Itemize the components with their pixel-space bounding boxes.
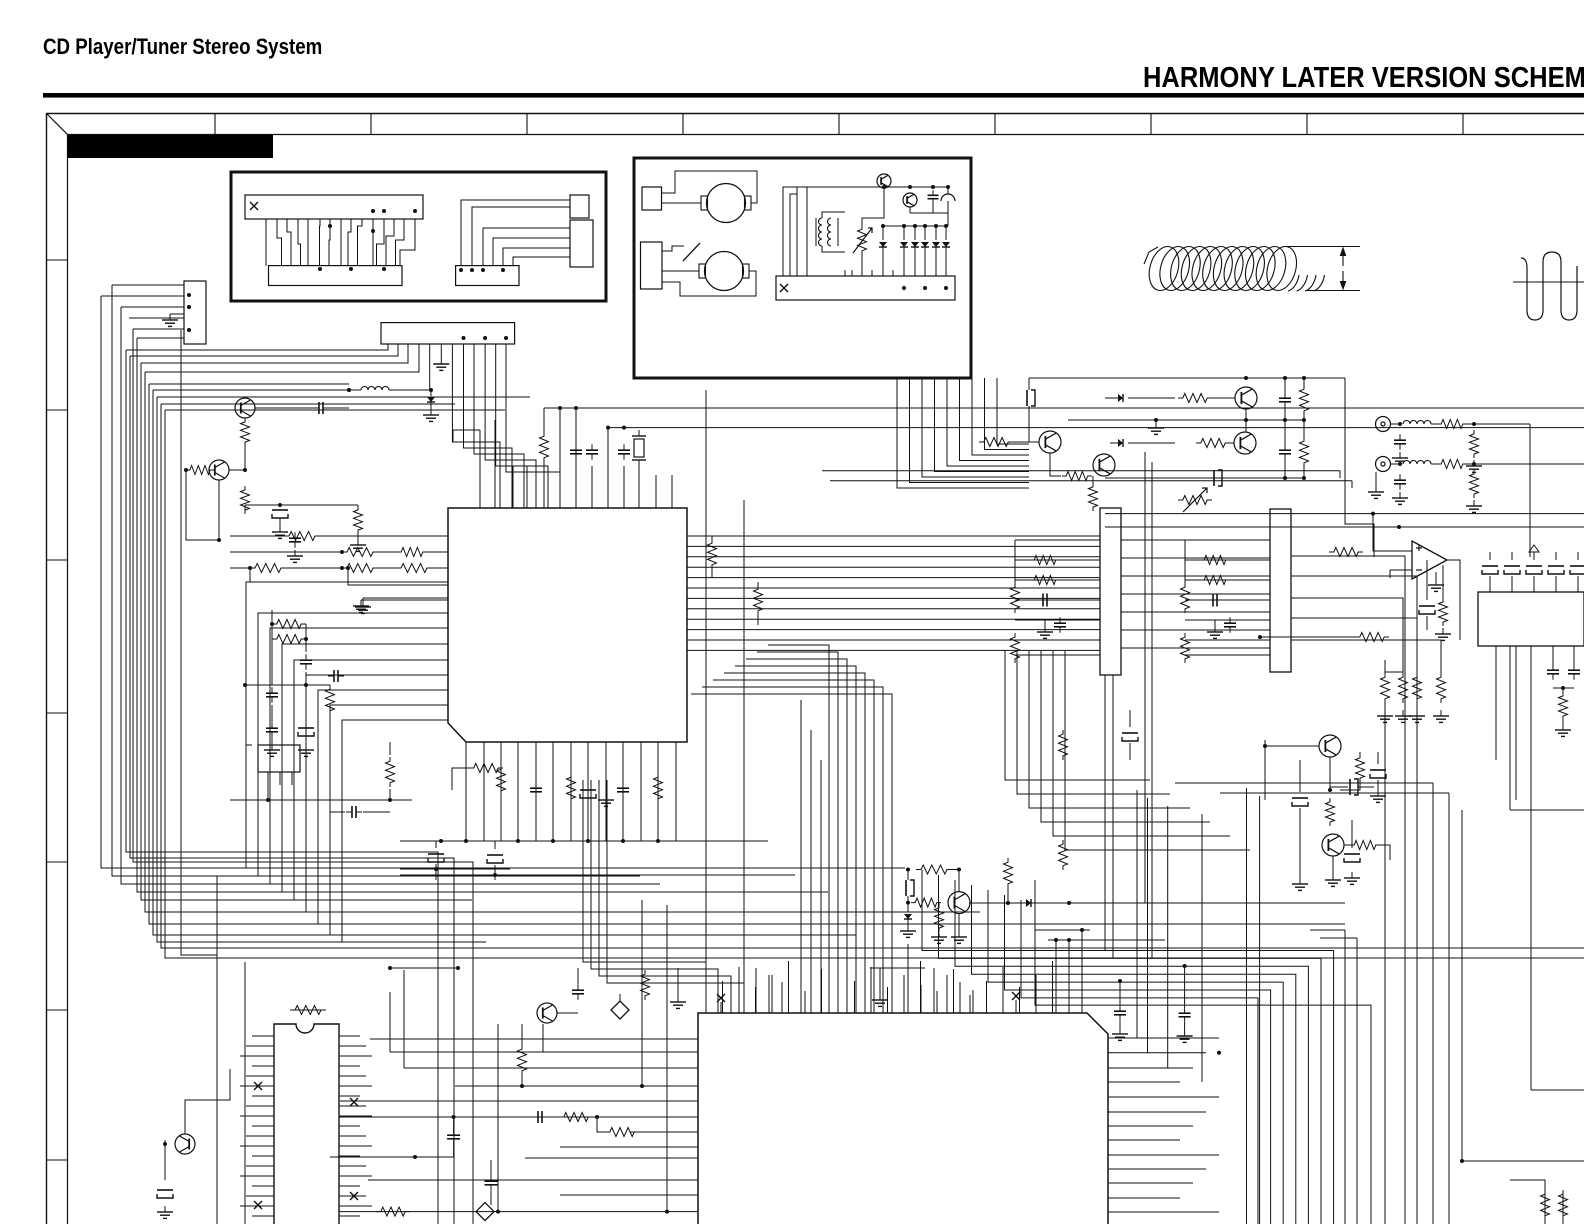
motor M1 brushes [701,196,708,210]
ground [271,744,273,750]
wire [1344,930,1346,1224]
transformer T1 primary loop [797,187,807,276]
ground [605,794,607,800]
wire [339,1116,510,1118]
connector CN8 [381,323,515,344]
board-to-board wires [266,219,415,266]
capacitor C52 [1370,769,1386,771]
RCA ground [1375,486,1377,492]
wire [390,967,458,969]
resistor R29 [979,438,1013,447]
wire [1175,782,1433,784]
connector CN3 [456,266,519,286]
U2 left pin wires [340,1039,698,1195]
resistor R49 [397,548,427,557]
wire [666,905,668,1212]
connector CN2 [269,266,403,286]
resistor R17 [290,1006,326,1015]
U2 left feeder elbows [583,780,744,1013]
left vertical wire bus [101,285,1584,1224]
U1 bottom pin wires [466,742,676,841]
resistor R27 [1178,394,1212,403]
capacitor C11 [591,444,593,450]
wire [862,188,884,225]
wire [389,992,391,1052]
capacitor C14 [580,789,596,791]
variable resistor VR1 [858,225,867,255]
IC U1 (servo DSP) [448,508,687,742]
resistor R37 [1559,692,1568,720]
U1 left pin loop wires [246,582,448,942]
RCA L network [1391,420,1530,473]
sub-board box B1 [231,172,606,301]
wire [141,344,408,363]
resistor R26c [935,904,944,932]
transistor Q10 [1319,735,1341,757]
IC U3 (driver) [274,1024,339,1224]
op-amp feedback [1447,560,1460,640]
wire [1329,757,1331,790]
wire [1259,796,1261,1224]
capacitor C60 [453,1129,455,1135]
wire [246,745,252,812]
wire [1291,598,1403,672]
resistor R36 [1439,598,1448,626]
wire [1136,790,1138,1038]
ground [1562,724,1564,730]
resistor R61 [605,1128,639,1137]
diode D10 [1118,439,1123,447]
wire [280,504,358,506]
resistor R62 [518,1045,527,1075]
wire [1356,938,1358,1224]
U1 top pin wires [480,408,672,508]
wire [130,344,398,356]
resistor R1c [241,486,250,514]
ground [169,314,171,320]
resistor R52 [1350,841,1380,850]
resistor R45 [386,757,395,787]
capacitor C23 [1284,444,1286,450]
capacitor C16 [428,853,444,855]
resistor R26b [911,898,941,907]
resistor R16 [641,970,650,1000]
wire [1345,378,1374,557]
channel staircase wires [1005,650,1250,850]
header J1 [570,195,589,218]
wire [181,330,610,868]
frame corner diagonal [47,114,68,135]
right vertical rails [1291,556,1449,1224]
connector pin stubs [783,270,893,276]
diode D8b [907,903,909,912]
RCA jack L [1376,417,1391,432]
capacitor C40 [932,190,934,195]
resistor R44 [272,635,306,644]
resistor R38 [1541,1190,1550,1220]
wire [1553,687,1574,689]
ground [1435,579,1437,585]
rail3 [1246,419,1304,421]
wire [1245,409,1247,432]
diode rail [883,225,946,227]
wire [400,874,795,876]
IC U5 (DAC right) [1270,509,1291,672]
wire [185,1069,230,1134]
wire [149,383,349,385]
capacitor C10 [575,444,577,450]
no-connect mark [780,284,788,292]
crystal X1 [634,439,644,457]
IC U4 (DAC left) [1100,508,1121,675]
no-connect [1012,992,1020,1000]
diode D8 [1026,899,1031,907]
U2 top pin wires [706,930,1082,1013]
resistor R13 [654,773,663,803]
ground [430,409,432,415]
bottom rail [339,1211,698,1213]
op-amp U6 [1412,541,1447,579]
capacitor C20 [1122,732,1138,734]
capacitor C25 [1419,605,1435,607]
rail junctions [882,185,886,189]
motor M2 [705,252,744,291]
resistor R49c [342,564,378,573]
wire [186,470,219,540]
wire [1104,675,1106,950]
wire [271,610,273,685]
triangle gnd [1529,545,1539,552]
pin dots [187,293,191,297]
capacitor C51 [1184,1008,1186,1013]
frame left ticks [47,260,68,1160]
wire junctions [318,209,417,271]
wire [1509,646,1511,810]
resistor R51 [1326,798,1335,826]
resistor R43 [272,620,306,629]
no-connect mark [250,202,258,210]
capacitor C13 [535,782,537,788]
transistor Q7 [1093,454,1115,476]
wire [641,900,643,1086]
wire [1220,792,1449,794]
U4 to U5 buses [1121,540,1270,648]
dimension arrows [1342,252,1344,266]
U3 right pin stubs [339,1036,372,1216]
wire [165,409,505,411]
switch S1 [662,246,684,251]
rail [1029,377,1345,379]
transistor Q6 [1039,431,1061,453]
U2 pin row with RC [510,1116,698,1118]
wire [145,344,419,372]
wire [1048,939,1165,941]
U2 right pin stubs [1108,1038,1221,1212]
black title block bar [68,135,274,158]
resistor R23 [1329,548,1363,557]
capacitor C30 [271,687,273,693]
resistor R24 [1059,730,1068,760]
resistor R47 [284,532,320,541]
transistor Q8 [1235,387,1257,409]
wire [1105,513,1584,515]
wire [1461,810,1463,1161]
wire [157,396,530,398]
capacitor C50 [1119,1006,1121,1011]
rail2 [1068,419,1246,421]
capacitor C17 [487,854,503,856]
RCA jack R [1376,457,1391,472]
dimension lines [1283,246,1360,248]
wire [1035,929,1090,931]
wire [245,684,330,686]
RCA R network [1391,460,1584,513]
ground [879,994,881,1000]
resistor R48 [342,548,378,557]
sub-board box B2 [634,158,971,378]
resistor R33 [1300,437,1309,467]
main data bus (staircase to bottom-right) [922,870,1371,1224]
resistor R32 [1300,385,1309,415]
wire [1291,618,1417,672]
node wire [544,407,1584,409]
resistor R26 [1004,858,1013,888]
diamond connector D2 [476,1203,494,1221]
transistor Q3 [537,1003,557,1023]
capacitor C26 [1552,664,1554,670]
connector CN1 [245,195,423,219]
capacitor C18 [577,984,579,990]
capacitor C26a [905,880,907,896]
resistor R39 [1559,1190,1568,1220]
wire [1265,745,1319,747]
ground [677,996,679,1002]
resistor R1a [241,418,250,446]
decoupling caps row [1482,552,1584,592]
capacitor C61 [490,1175,492,1181]
wire [1291,640,1441,672]
wire [1144,452,1146,903]
resistor R31 [1089,483,1098,511]
transistor Q21 [903,193,917,207]
title: CD Player/Tuner Stereo System [43,34,322,60]
wire [230,799,412,801]
capacitor C31 [305,654,307,660]
wire [161,403,455,405]
U1 right pin buses [687,536,1100,650]
wire [1105,526,1584,528]
motor M2 wiring [662,270,699,272]
resistor R21 [754,585,763,615]
U2 top vertical bus [691,645,892,1013]
ground [1155,422,1157,428]
wire [348,568,448,585]
ground pin 7 [440,344,442,358]
pin 6 wire [429,344,431,390]
resistor R1b [186,466,214,475]
diode array D1-D6 [879,226,950,276]
capacitor C28 [1344,853,1360,855]
transistor Q2 [209,460,229,480]
diode D9 [1118,394,1123,402]
ground [362,601,364,607]
wire [216,876,218,1224]
resistor R50 [1356,754,1365,782]
inductor L1 [361,387,389,391]
no-connect [717,994,725,1002]
resistor R10 [540,432,549,462]
wire [453,430,480,442]
capacitor C35 [346,811,352,813]
resistor R28 [1196,439,1230,448]
left channel network [1011,540,1101,663]
wire [245,504,280,506]
transistor Q1 [235,398,255,418]
no-connect [254,1082,262,1090]
wire [1530,646,1532,1090]
fan wires CN8 to U1 [452,344,560,508]
capacitor C15 [622,782,624,788]
header J2 [570,220,593,267]
diamond connector [611,1001,629,1019]
capacitor C1c [294,532,296,538]
resistor R26a [916,865,952,874]
transistor Q11 [1322,834,1344,856]
resistor R1d [354,506,363,534]
motor M2 brushes [699,264,706,278]
capacitor C27 [1573,664,1575,670]
wire [1385,671,1403,673]
IC U2 (system micom) [698,1013,1108,1224]
transistor Q9 [1234,432,1256,454]
U3 left pin stubs [240,1036,274,1216]
capacitor C33 [298,727,314,729]
wire [497,1024,499,1212]
varistor arc [941,194,955,201]
left drop wires [783,187,797,276]
op-amp input wires [1373,550,1412,552]
wire [822,470,1340,472]
wire [153,389,349,391]
motor M1 [707,184,746,223]
transistor Q20 [877,174,891,188]
transformer T1 windings [819,218,823,246]
wire [400,868,510,870]
capacitor C21 [1026,390,1028,406]
wire [1510,1180,1545,1190]
capacitor C24 [1213,470,1215,486]
ground [164,1206,166,1212]
capacitor C32 [271,722,273,728]
box2 output bundle [897,378,1029,488]
resistor R46 [326,685,335,715]
resistor R49b [250,564,286,573]
bus wires from CN7 [101,285,184,338]
resistor R20 [708,539,717,569]
capacitor C22 [1284,392,1286,398]
resistor R11 [497,765,506,795]
wire [830,480,1352,482]
transistor Q5 [948,892,970,914]
spring coil drawing [1144,243,1325,294]
trimmer VR2 [1178,496,1212,505]
wire [244,446,246,470]
resistor R42 [396,564,432,573]
wire [1529,424,1531,557]
capacitor C34 [328,675,334,677]
pin dots [902,286,906,290]
wire [969,902,1345,904]
node wire2 [608,427,1584,429]
top rail [807,186,948,188]
crystal Y2 [1349,779,1351,795]
connector CN6 [776,276,955,300]
transformer wires [815,218,817,246]
resistor R14 [469,764,503,773]
wire [126,344,388,350]
resistor R30 [1062,472,1092,481]
rail4 [1105,477,1304,479]
wire [1246,788,1248,1224]
capacitor C1b [272,509,288,511]
capacitor C19 [157,1189,173,1191]
capacitor C12 [623,444,625,450]
crystal module [258,745,300,772]
connector CN5 [641,242,663,289]
pin dots [462,336,466,340]
wire [250,568,362,582]
wire [705,390,707,968]
connector CN7 [184,281,206,344]
ground [1332,874,1334,880]
capacitor C53 [1292,797,1308,799]
resistor R25 [1059,840,1068,870]
transistor Q4 [175,1134,195,1154]
jumper wires [461,200,570,266]
ground [305,744,307,750]
capacitor C1a [312,407,319,409]
heading: HARMONY LATER VERSION SCHEMATIC [1143,62,1584,95]
bottom bus [400,840,768,842]
wire [229,469,245,471]
wire [164,1140,166,1180]
right channel network [1181,540,1271,663]
resistor R12 [567,773,576,803]
motor M1 wiring [662,171,758,203]
frame top ticks [215,114,1463,135]
connector CN4 [642,187,662,210]
resistor ladder [1377,672,1449,722]
U7 bottom wires [1496,646,1531,840]
diode D7 [430,390,432,396]
wire [244,962,246,1224]
IC U7 (headphone amp) [1478,592,1584,646]
wire [522,1024,543,1052]
waveform drawing [1521,252,1577,320]
wire junctions [459,268,505,272]
ground [360,600,362,606]
header rule [43,93,1584,98]
resistor R35 [1355,633,1389,642]
second rail [910,212,948,214]
